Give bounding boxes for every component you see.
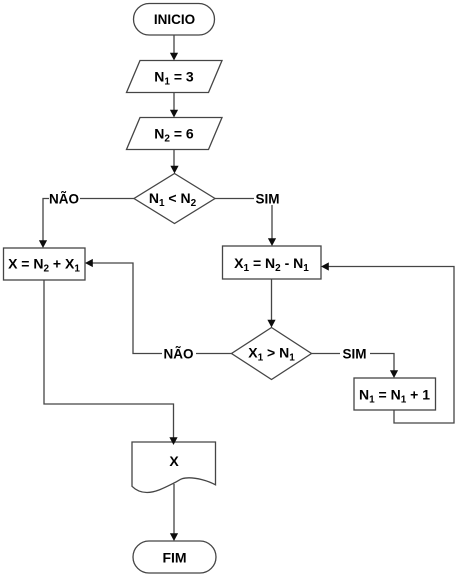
svg-text:SIM: SIM xyxy=(342,346,366,361)
svg-text:FIM: FIM xyxy=(162,550,186,566)
svg-text:INICIO: INICIO xyxy=(154,12,195,27)
svg-text:SIM: SIM xyxy=(255,191,279,206)
svg-text:X: X xyxy=(169,453,179,469)
svg-text:NÃO: NÃO xyxy=(49,191,79,206)
svg-text:NÃO: NÃO xyxy=(164,346,194,361)
